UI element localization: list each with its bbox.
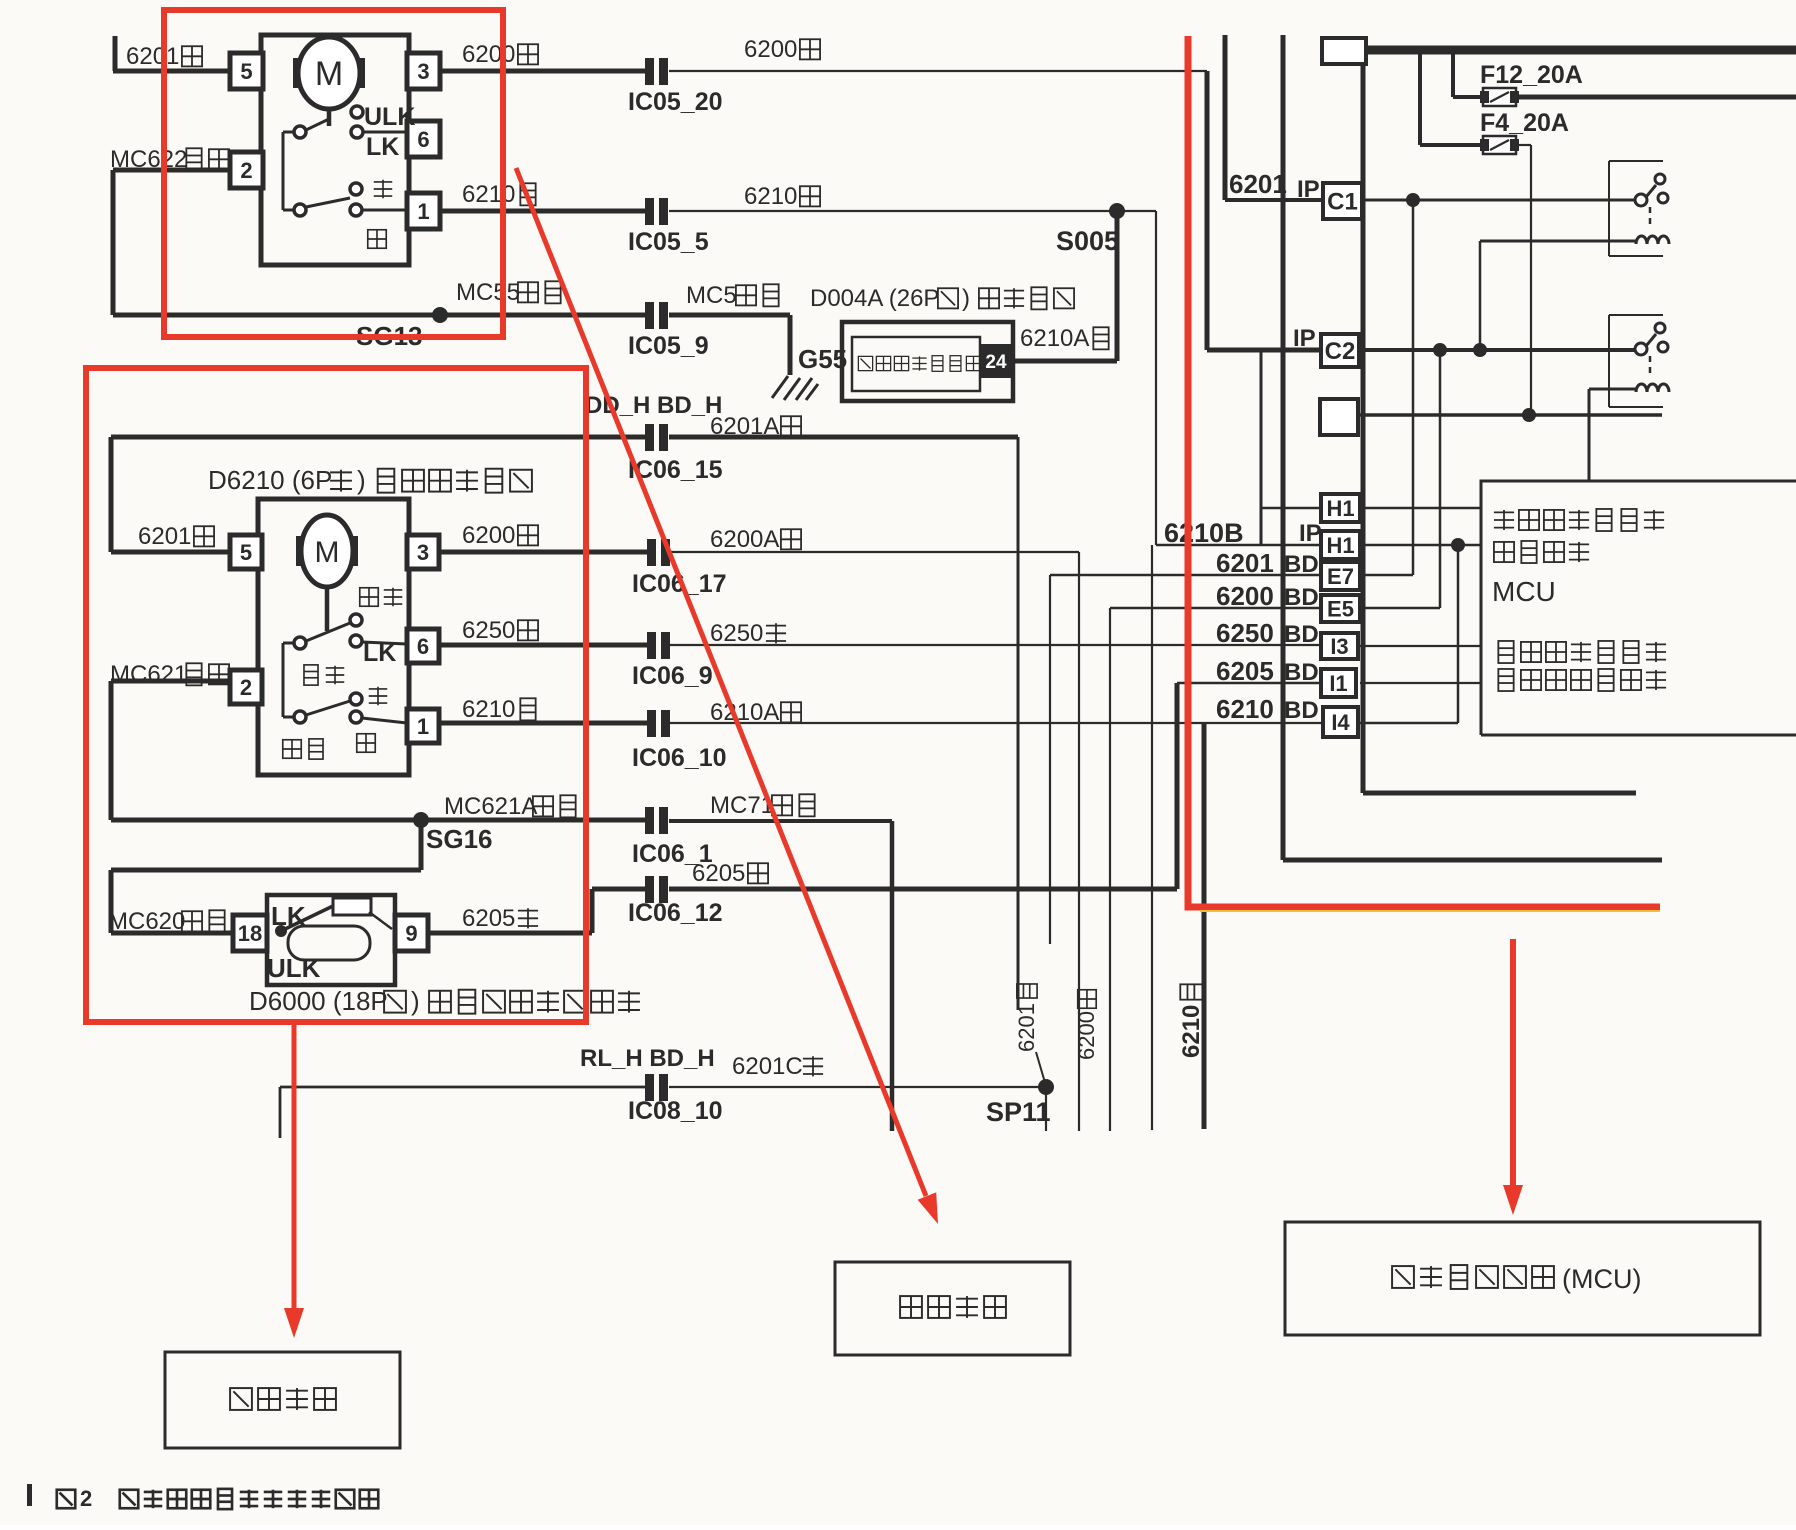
connector I1 <box>1321 669 1356 697</box>
pin 6 (D6210) <box>407 629 439 663</box>
label IC08_10 <box>628 1097 723 1125</box>
wire vertical 6201 feed x1225 <box>1223 35 1228 200</box>
wire F4 output down x1531 <box>1516 145 1531 415</box>
connector IC06_15 <box>645 424 668 451</box>
label IC06_15 <box>628 456 723 484</box>
label door not closed warning lamp <box>858 356 980 372</box>
wire 6210A red long run to I4 <box>670 722 1321 724</box>
connector E7 <box>1321 562 1360 590</box>
fuse F4_20A <box>1480 136 1519 154</box>
label jiechu contact (D6210) <box>283 739 323 759</box>
svg-text:S005: S005 <box>1056 226 1119 256</box>
label IP at C2 <box>1293 325 1316 352</box>
label F4_20A <box>1480 109 1569 137</box>
label MCU <box>1492 576 1556 607</box>
row IP C1 6201 <box>1225 198 1637 202</box>
label kaisuo unlock (D6210) <box>360 588 402 606</box>
svg-text:I4: I4 <box>1331 710 1350 735</box>
wire vertical 6200 feed x1207 <box>1205 71 1210 350</box>
label left front door lock state <box>1498 641 1666 663</box>
svg-text:6210A: 6210A <box>1020 325 1089 352</box>
label SG13 <box>356 321 423 351</box>
svg-text:MC621A: MC621A <box>444 793 537 820</box>
svg-text:MCU: MCU <box>1492 576 1556 607</box>
svg-text:6: 6 <box>417 634 429 659</box>
junction dots on C2 row <box>1433 343 1487 357</box>
svg-text:6210: 6210 <box>1216 694 1274 724</box>
svg-text:6201: 6201 <box>138 523 191 550</box>
svg-text:18: 18 <box>238 921 262 946</box>
wire SG16 branch down-left to D6000 <box>111 820 421 933</box>
svg-text:6210: 6210 <box>462 696 515 723</box>
label kai open (master) <box>368 230 386 248</box>
pin 24 of D004A <box>981 344 1012 378</box>
bus bar top 30A feed <box>1366 46 1796 55</box>
svg-text:6210: 6210 <box>1178 1005 1205 1058</box>
wire x1152 stub down from H1 row <box>1151 545 1153 1130</box>
label wire 6205 brown <box>462 905 538 932</box>
door-ajar warning lamp inner box <box>852 337 980 391</box>
wire 6201 riser x1050 from E7 row <box>1049 575 1051 944</box>
pin 3 (D6210) <box>407 535 439 569</box>
row 6205 BD I1 <box>1360 682 1481 684</box>
label F12_20A <box>1480 61 1583 89</box>
svg-text:2: 2 <box>80 1486 92 1511</box>
label guan close (D6210) <box>369 687 387 705</box>
red arrow to main door lock block <box>284 1022 304 1338</box>
label S005 <box>1056 226 1119 256</box>
svg-text:IP: IP <box>1297 176 1320 203</box>
label wire MC5 green-yellow <box>686 282 779 309</box>
label wire 6201 green <box>126 43 202 70</box>
row 6210B IP H1 lower <box>1156 544 1481 547</box>
wire MC71 green-yellow to drop x892 <box>669 821 892 1131</box>
svg-text:6201: 6201 <box>1216 548 1274 578</box>
svg-text:): ) <box>357 465 366 495</box>
ground G55 symbol <box>772 376 818 400</box>
wire 6210 green thin run to S005 <box>669 210 1156 212</box>
svg-text:IC08_10: IC08_10 <box>628 1097 723 1125</box>
svg-text:(MCU): (MCU) <box>1562 1264 1641 1294</box>
connector IC06_10 <box>647 710 670 737</box>
label wire MC621 yellow-green <box>110 661 229 688</box>
label wire 6200A red <box>710 526 801 553</box>
label wire 6200 red (D6210) <box>462 522 538 549</box>
svg-text:MC55: MC55 <box>456 279 520 306</box>
label G55 <box>798 344 847 374</box>
svg-text:IC06_10: IC06_10 <box>632 744 727 772</box>
wire 6200A red thin run <box>670 551 1079 553</box>
svg-text:I1: I1 <box>1329 671 1347 696</box>
wire 6205 green row to IC06_12 and staircase <box>592 887 1177 892</box>
svg-text:1: 1 <box>417 199 429 224</box>
label wire 6210 green <box>744 183 820 210</box>
svg-text:RL_H BD_H: RL_H BD_H <box>580 1045 715 1072</box>
main door lock block box <box>165 1352 400 1448</box>
pin 5 (D6210) <box>230 535 262 569</box>
splice S005 <box>1109 203 1125 219</box>
wire MC620 into pin18 <box>111 931 233 936</box>
switch internals (D6210 state/contact switch) <box>283 587 407 723</box>
wire 6200 red from pin3 to IC05_20 <box>440 69 646 74</box>
connector C2 <box>1321 334 1359 367</box>
wire bus row y860 <box>1283 858 1662 863</box>
label DD_H BD_H <box>585 392 722 419</box>
svg-text:6201A: 6201A <box>710 413 779 440</box>
svg-text:6210B: 6210B <box>1164 518 1244 548</box>
connector I3 <box>1321 633 1358 659</box>
label 6201 boxed <box>1229 169 1287 199</box>
svg-text:E7: E7 <box>1327 564 1354 589</box>
svg-text:IC05_5: IC05_5 <box>628 228 709 256</box>
wire 6201A vertical drop x1018 <box>1017 437 1020 1010</box>
svg-text:SG16: SG16 <box>426 824 493 854</box>
label sub door lock block <box>900 1296 1006 1318</box>
svg-text:SP11: SP11 <box>986 1097 1051 1127</box>
svg-text:6200A: 6200A <box>710 526 779 553</box>
label D004A 26P blue combination instrument <box>810 285 1074 312</box>
svg-text:MC622: MC622 <box>110 146 187 173</box>
caption figure 2 <box>27 1484 378 1511</box>
label wire 6210A yellow <box>1020 325 1109 352</box>
fuse F12_20A <box>1480 88 1519 106</box>
wire MC55 green-yellow to ground branch <box>113 315 790 375</box>
connector H1 upper <box>1321 494 1360 522</box>
svg-text:C1: C1 <box>1327 189 1358 216</box>
label LK (master) <box>366 133 399 161</box>
connector IC05_9 <box>645 302 668 329</box>
label wire 6200 red right <box>744 36 820 63</box>
relay 1 box <box>1609 161 1663 256</box>
row 6201 BD E7 <box>1050 200 1413 575</box>
label wire MC622 yellow-green <box>110 146 229 173</box>
wire 6210 riser x1204 to I4 row <box>1202 723 1207 1129</box>
svg-text:6201C: 6201C <box>732 1053 803 1080</box>
svg-text:MC5: MC5 <box>686 282 737 309</box>
connector box on bus <box>1322 38 1366 64</box>
connector IC05_5 <box>645 198 668 225</box>
label wire 6201C brown <box>732 1053 823 1080</box>
component box D6210 <box>258 499 409 775</box>
label SP11 <box>986 1097 1051 1127</box>
svg-text:6200: 6200 <box>462 522 515 549</box>
label LK (D6210) <box>363 639 396 667</box>
svg-text:5: 5 <box>240 59 252 84</box>
pin 3 (master) <box>407 53 440 89</box>
svg-text:I3: I3 <box>1330 634 1348 659</box>
connector IC06_17 <box>647 539 670 566</box>
svg-text:6250: 6250 <box>462 617 515 644</box>
svg-text:BD: BD <box>1284 621 1319 648</box>
svg-text:6210: 6210 <box>744 183 797 210</box>
svg-text:D6210 (6P: D6210 (6P <box>208 465 332 495</box>
wire riser dot to I4 row <box>1457 545 1460 723</box>
wire 6201A green row to IC06_15 and right <box>111 437 1018 552</box>
wire 6250 red from pin6 D6210 <box>439 643 649 648</box>
component box D-master door-lock actuator <box>261 35 409 265</box>
splice SG13 <box>432 307 448 323</box>
label 6200 BD <box>1216 581 1319 611</box>
relay 2 box <box>1609 315 1663 407</box>
label body control module MCU <box>1392 1264 1641 1294</box>
pin 18 (D6000) <box>233 915 267 951</box>
label wire 6201 grey rotated <box>1014 984 1039 1052</box>
connector C1 <box>1323 183 1362 219</box>
svg-text:6: 6 <box>417 127 429 152</box>
pin 1 (master) <box>407 193 440 229</box>
svg-text:E5: E5 <box>1327 596 1354 621</box>
label IC06_1 <box>632 840 713 868</box>
svg-text:H1: H1 <box>1326 533 1354 558</box>
MCU module box <box>1481 481 1796 735</box>
svg-text:IP: IP <box>1293 325 1316 352</box>
pin 2 (D6210) <box>230 670 262 704</box>
svg-text:MC621: MC621 <box>110 661 187 688</box>
label IC06_9 <box>632 662 713 690</box>
svg-text:6210A: 6210A <box>710 699 779 726</box>
label IC06_12 <box>628 899 723 927</box>
row 6250 BD I3 <box>1360 645 1481 647</box>
svg-text:BD: BD <box>1284 697 1319 724</box>
body control module box <box>1285 1222 1760 1335</box>
connector E5 <box>1321 595 1360 622</box>
svg-text:6200: 6200 <box>1074 1011 1099 1060</box>
wire 6200 red thin run to right bus <box>669 70 1207 72</box>
wire 6210 yellow from pin1 D6210 <box>439 721 649 726</box>
label LK (D6000) <box>271 901 306 931</box>
sub door lock block box <box>835 1262 1070 1355</box>
wire MC621 yellow-green into pin2 D6210 <box>111 681 230 820</box>
label wire 6200 red left <box>462 41 538 68</box>
svg-text:6205: 6205 <box>1216 656 1274 686</box>
wire drop to F12 fuse <box>1453 50 1483 97</box>
connector IC06_1 <box>645 807 668 834</box>
pin 1 (D6210) <box>407 709 439 743</box>
wire 6201 green into pin5 D6210 <box>111 550 230 555</box>
label IP at C1 <box>1297 176 1320 203</box>
pin 2 (master) <box>230 152 263 188</box>
wire connector column x1363 <box>1363 64 1636 793</box>
label IC05_5 <box>628 228 709 256</box>
label right front door lock state contact switch <box>1494 509 1664 531</box>
switch internals (master lock state switch) <box>283 106 407 216</box>
svg-text:F4_20A: F4_20A <box>1480 109 1569 137</box>
label IC05_9 <box>628 332 709 360</box>
svg-text:LK: LK <box>366 133 399 161</box>
wire 6200A vertical drop x1079 <box>1078 552 1080 1131</box>
svg-text:2: 2 <box>240 675 252 700</box>
label IC06_10 <box>632 744 727 772</box>
wire MC622 yellow-green into pin2 master <box>113 170 230 315</box>
svg-text:F12_20A: F12_20A <box>1480 61 1583 89</box>
svg-text:6201: 6201 <box>1229 169 1287 199</box>
svg-text:6250: 6250 <box>1216 618 1274 648</box>
label wire 6210 yellow (D6210) <box>462 696 536 723</box>
wire 6210 yellow from pin1 to IC05_5 <box>440 209 646 214</box>
svg-text:5: 5 <box>240 540 252 565</box>
leader 6201 grey to SP11 <box>1036 1052 1046 1086</box>
row IP C2 6200 <box>1207 348 1637 353</box>
svg-text:2: 2 <box>240 158 252 183</box>
svg-text:6200: 6200 <box>1216 581 1274 611</box>
svg-text:IC06_12: IC06_12 <box>628 899 723 927</box>
svg-text:ULK: ULK <box>267 953 321 983</box>
splice SG16 <box>413 812 429 828</box>
label wire 6210 yellow <box>462 181 536 208</box>
junction dot on row 415 <box>1522 408 1536 422</box>
label RL_H BD_H <box>580 1045 715 1072</box>
svg-text:BD: BD <box>1284 584 1319 611</box>
component box D004A instrument cluster <box>842 322 1013 401</box>
svg-text:6205: 6205 <box>692 860 745 887</box>
svg-text:H1: H1 <box>1326 496 1354 521</box>
connector IC08_10 <box>645 1074 668 1101</box>
motor M1 (master lock) <box>293 37 365 109</box>
label left front door open switch <box>1498 669 1666 691</box>
label wire 6250 brown <box>710 620 786 647</box>
wire F12 output to right <box>1516 95 1796 100</box>
label IC05_20 <box>628 88 723 116</box>
red highlight box lower (driver door area) <box>86 368 586 1022</box>
label wire 6210 grey rotated <box>1178 984 1205 1058</box>
connector I4 <box>1323 707 1358 737</box>
label 6210 BD <box>1216 694 1319 724</box>
label wire MC71 green-yellow <box>710 792 815 819</box>
wire vertical x1261 <box>1260 350 1263 545</box>
motor M2 (left front lock) <box>296 515 358 587</box>
svg-text:1: 1 <box>417 714 429 739</box>
svg-text:D6000 (18P: D6000 (18P <box>249 986 388 1016</box>
label wire MC621A green-yellow <box>444 793 576 820</box>
svg-text:): ) <box>411 986 420 1016</box>
wire 6200 riser x1110 from E5 row <box>1109 608 1111 1131</box>
wire 6210B riser x1156 from S005 run <box>1155 211 1157 545</box>
svg-text:6210: 6210 <box>462 181 515 208</box>
label 6250 BD <box>1216 618 1319 648</box>
svg-text:BD: BD <box>1284 659 1319 686</box>
label wire 6250 red <box>462 617 538 644</box>
pin 5 (master) <box>230 53 263 89</box>
wire MC621A green-yellow row <box>111 818 646 823</box>
connector IC06_9 <box>647 632 670 659</box>
label 6201 BD <box>1216 548 1319 578</box>
label wire 6205 green <box>692 860 768 887</box>
connector IC05_20 <box>645 58 668 85</box>
component box D6000 switch <box>267 895 395 985</box>
row 6200 BD E5 <box>1110 350 1440 608</box>
label main door lock block <box>230 1388 336 1410</box>
switch internals D6000 <box>275 898 392 960</box>
wire 6210A yellow from pin24 to S005 riser <box>1012 359 1117 364</box>
svg-text:9: 9 <box>405 921 417 946</box>
label wire 6200 green rotated <box>1074 990 1099 1060</box>
relay 1 contact and coil <box>1480 174 1669 350</box>
row H1 upper <box>1261 507 1481 510</box>
wire 6205 brown from pin9 <box>428 889 592 933</box>
label ULK (master) <box>364 103 415 131</box>
red arrow to body control module box <box>1503 939 1523 1215</box>
wire 6201 green into pin5 master <box>113 36 230 71</box>
svg-text:ULK: ULK <box>364 103 415 131</box>
svg-text:IC06_9: IC06_9 <box>632 662 713 690</box>
svg-text:M: M <box>315 536 340 569</box>
svg-text:3: 3 <box>417 540 429 565</box>
svg-text:6201: 6201 <box>1014 1003 1039 1052</box>
svg-text:IP: IP <box>1299 520 1322 547</box>
svg-text:6205: 6205 <box>462 905 515 932</box>
svg-text:6200: 6200 <box>744 36 797 63</box>
svg-text:BD: BD <box>1284 551 1319 578</box>
connector IC06_12 <box>645 876 668 903</box>
svg-text:M: M <box>315 55 343 93</box>
label IC06_17 <box>632 570 727 598</box>
svg-text:LK: LK <box>363 639 396 667</box>
wire vertical bus x1283 <box>1281 35 1286 860</box>
junction dot on C1 row <box>1406 193 1420 207</box>
label SG16 <box>426 824 493 854</box>
red highlight box top (master lock) <box>164 10 503 337</box>
row from connector box to relay2 area <box>1320 399 1662 435</box>
relay 2 contact and coil <box>1589 323 1669 481</box>
label wire 6201A green <box>710 413 801 440</box>
pin 9 (D6000) <box>395 915 428 951</box>
splice SP11 <box>1038 1079 1054 1095</box>
svg-text:6201: 6201 <box>126 43 179 70</box>
label kai open (D6210) <box>357 734 375 752</box>
label wire 6210A red <box>710 699 801 726</box>
wire 6205 staircase up x1177 to I1 row <box>1177 683 1321 889</box>
svg-text:): ) <box>962 285 970 312</box>
label D6000 18P white driver door lock master switch <box>249 986 640 1016</box>
label D6210 6P brown left front door lock assy <box>208 465 532 495</box>
wire 6201C brown row to SP11 <box>280 1087 1046 1138</box>
label ULK (D6000) <box>267 953 321 983</box>
junction dot right of H1 <box>1451 538 1465 552</box>
svg-text:LK: LK <box>271 901 306 931</box>
wire 6200 red from pin3 D6210 <box>439 550 649 555</box>
label wire MC55 green-yellow <box>456 279 561 306</box>
label 6205 BD <box>1216 656 1319 686</box>
svg-text:D004A (26P: D004A (26P <box>810 285 939 312</box>
connector H1 lower <box>1321 531 1360 559</box>
svg-text:24: 24 <box>985 352 1007 373</box>
pin 6 (master) <box>407 121 440 157</box>
wire drop to F4 fuse <box>1420 50 1483 145</box>
svg-text:6250: 6250 <box>710 620 763 647</box>
label 6210B <box>1164 518 1244 548</box>
label wire 6201 green (D6210) <box>138 523 214 550</box>
wire 6250 brown long run to I3 <box>670 644 1321 646</box>
red diagonal arrow to sub door lock block <box>516 168 938 1224</box>
row 6210 BD I4 <box>1360 722 1458 725</box>
svg-text:3: 3 <box>417 59 429 84</box>
label wire MC620 green-yellow <box>108 908 225 935</box>
svg-text:IC05_9: IC05_9 <box>628 332 709 360</box>
label zhuangtai state (D6210) <box>304 665 344 685</box>
label IP at H1 <box>1299 520 1322 547</box>
wire riser S005 down to D004A <box>1115 211 1120 361</box>
svg-text:6200: 6200 <box>462 41 515 68</box>
svg-text:IC05_20: IC05_20 <box>628 88 723 116</box>
wire 6201 below SP11 <box>1045 1087 1047 1131</box>
red separator line right <box>1188 36 1660 911</box>
svg-text:C2: C2 <box>1325 338 1356 365</box>
label guan close (master) <box>374 180 392 198</box>
